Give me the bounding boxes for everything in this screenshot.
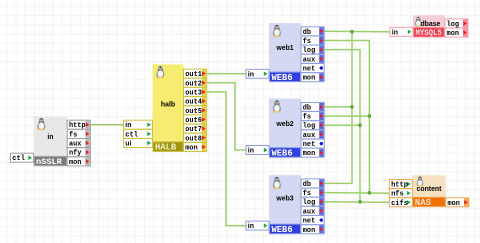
port nfs (input) of content NAS [389,189,412,199]
svg-text:WEB6: WEB6 [272,225,293,235]
junction fs net at content.nfs wire [368,191,371,194]
wire halb.out3 -> web3.in [207,92,246,226]
svg-text:mon: mon [303,150,315,158]
svg-text:HALB: HALB [155,143,177,153]
svg-text:ui: ui [125,141,131,148]
wire nSSLR.http -> halb.in [90,124,123,126]
port out5 (output) of HALB [184,106,207,116]
port aux (output) of web2 [301,130,324,140]
port db (output) of web1 [301,27,324,37]
port out3 (output) of HALB [184,87,207,97]
junction db net at web1 row [350,30,353,33]
port http (input) of content NAS [389,180,412,190]
wire web2.fs -> fs net [324,115,369,117]
port out2 (output) of HALB [184,78,207,88]
svg-text:nSSLR: nSSLR [36,157,63,167]
svg-text:mon: mon [185,145,197,153]
svg-text:MYSQL5: MYSQL5 [416,28,442,38]
port in (input) of HALB [124,120,153,129]
port fs (output) of web3 [301,188,324,198]
svg-text:mon: mon [303,75,315,83]
port in (input) of web2 [246,146,269,155]
svg-text:dbase: dbase [420,21,440,28]
svg-text:in: in [248,223,254,230]
svg-text:WEB6: WEB6 [272,148,293,158]
port log (output) of web2 [301,121,324,131]
port net (unconnected socket) of web3 [301,216,324,226]
port mon (output) of HALB [184,143,207,153]
svg-text:mon: mon [447,30,459,38]
wire web1.fs -> fs net vertical [324,41,369,193]
junction log net at web2.log [358,124,361,127]
port out1 (output) of HALB [184,69,207,79]
svg-text:halb: halb [161,102,175,109]
port in (input) of dbase [390,27,413,36]
port out7 (output) of HALB [184,124,207,134]
junction fs net at web2.fs [368,115,371,118]
svg-text:NAS: NAS [415,198,432,208]
wire web1.log -> log net vertical [324,50,360,202]
port aux (output) of web3 [301,206,324,216]
port nfy (output) of nSSLR [67,148,90,158]
port mon (output) of web2 [301,148,324,158]
port in (input) of web1 [246,69,269,78]
port ui (input) of HALB [124,139,153,148]
svg-text:in: in [125,122,131,129]
svg-text:WEB6: WEB6 [272,73,293,83]
port net (unconnected socket) of web1 [301,64,324,74]
svg-text:ctl: ctl [12,155,25,163]
port mon (output) of dbase [445,28,468,38]
port out6 (output) of HALB [184,115,207,125]
svg-text:web2: web2 [275,121,293,128]
wire db net vertical down to web3.db [324,32,352,184]
port fs (output) of nSSLR [67,129,90,139]
wire halb.out1 -> web1.in [207,73,247,75]
port db (output) of web3 [301,179,324,189]
port fs (output) of web2 [301,112,324,122]
port out4 (output) of HALB [184,97,207,107]
port in (input) of web3 [246,221,269,230]
port fs (output) of web1 [301,36,324,46]
svg-text:web1: web1 [275,45,293,52]
svg-text:in: in [248,71,254,78]
port aux (output) of nSSLR [67,139,90,149]
svg-text:web3: web3 [275,195,293,202]
port log (output) of dbase [445,19,468,29]
component U1: nSSLR (instance "in") box [34,117,68,167]
wire web2.log -> log net [324,124,360,126]
port mon (output) of web1 [301,73,324,83]
wire web3.fs -> content.nfs [324,192,389,195]
wire web2.db -> db net [324,106,352,108]
component U5: WEB6 (instance "web3") box [269,175,301,235]
component U7: NAS (instance "content") box [412,175,445,208]
svg-text:content: content [417,186,443,193]
port net (unconnected socket) of web2 [301,139,324,149]
svg-text:mon: mon [69,159,81,167]
port ctl (input) of HALB [124,129,153,139]
wire web1.db -> dbase.in [324,30,390,33]
port ctl (input) of nSSLR [11,153,34,163]
component U4: WEB6 (instance "web2") box [269,99,301,159]
svg-text:cifs: cifs [391,200,408,208]
junction db net at web2.db [350,105,353,108]
port http (output) of nSSLR [67,120,90,130]
svg-text:mon: mon [303,227,315,235]
port db (output) of web2 [301,102,324,112]
port cifs (input) of content NAS [389,198,412,208]
port mon (output) of nSSLR [67,157,90,167]
port out8 (output) of HALB [184,133,207,143]
junction log net at content.cifs wire [358,200,361,203]
svg-text:in: in [248,148,254,155]
component U3: WEB6 (instance "web1") box [269,23,301,83]
port aux (output) of web1 [301,54,324,64]
wire web3.log -> content.cifs [324,201,389,204]
component U6: MYSQL5 (instance "dbase") box [413,15,445,38]
port mon (output) of web3 [301,225,324,235]
port log (output) of web3 [301,197,324,207]
svg-text:in: in [47,134,53,141]
wire halb.out2 -> web2.in [207,83,246,150]
port log (output) of web1 [301,45,324,55]
component U2: HALB (instance "halb") box [153,64,184,152]
svg-text:mon: mon [448,200,460,208]
port mon (output) of content NAS [446,198,469,208]
svg-text:in: in [392,29,398,36]
